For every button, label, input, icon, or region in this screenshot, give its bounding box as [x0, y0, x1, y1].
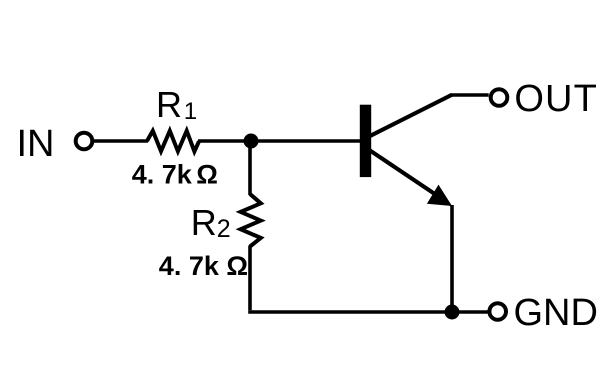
- svg-text:R2: R2: [191, 202, 231, 243]
- wire IN terminal to R1: [93, 139, 148, 143]
- IN terminal circle: [76, 133, 93, 150]
- transistor Q1 emitter wire: [370, 151, 447, 203]
- GND terminal circle: [489, 303, 506, 320]
- node A junction dot: [244, 134, 259, 149]
- transistor Q1 emitter arrowhead: [427, 185, 452, 206]
- resistor R1: [147, 131, 199, 152]
- svg-text:4. 7k Ω: 4. 7k Ω: [132, 160, 218, 190]
- transistor Q1 base bar: [360, 105, 371, 177]
- OUT terminal circle: [491, 89, 508, 106]
- svg-text:IN: IN: [17, 123, 55, 165]
- wire R1 to transistor base (through node A): [198, 139, 360, 143]
- node B junction dot (emitter/GND): [445, 305, 460, 320]
- svg-text:R1: R1: [156, 84, 197, 125]
- svg-text:OUT: OUT: [514, 78, 598, 120]
- resistor R2: [241, 194, 261, 247]
- svg-text:GND: GND: [514, 292, 598, 334]
- wire bottom rail to GND: [248, 310, 487, 314]
- wire emitter down to node B: [450, 205, 454, 312]
- svg-text:4. 7k Ω: 4. 7k Ω: [159, 251, 248, 281]
- transistor Q1 collector wire to OUT: [369, 95, 452, 137]
- wire R2 down to bottom rail: [248, 246, 252, 311]
- wire node A down to R2: [248, 139, 252, 195]
